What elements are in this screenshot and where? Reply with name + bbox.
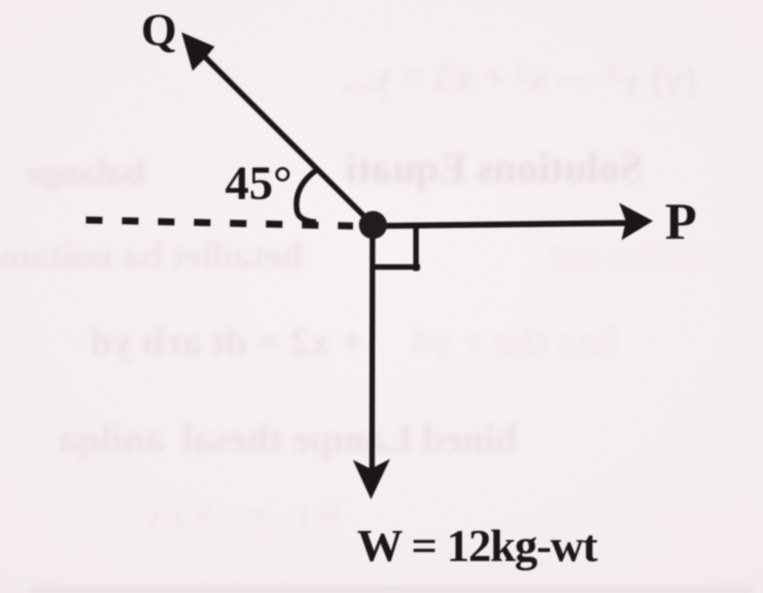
svg-text:0 t - y - S t v: 0 t - y - S t v [143, 495, 338, 537]
svg-text:45°: 45° [225, 157, 292, 210]
arrowhead of Q [183, 34, 213, 69]
svg-text:(y) y² — x² + x5 = y...: (y) y² — x² + x5 = y... [343, 56, 697, 101]
svg-text:+ x2 = dt arb yd: + x2 = dt arb yd [90, 319, 363, 364]
arrowhead of W [355, 461, 388, 497]
diagram ink [86, 34, 651, 497]
wire: force W shaft (down) [369, 225, 375, 472]
wire: force P shaft (to the right) [373, 223, 628, 226]
svg-text:Q: Q [141, 4, 177, 55]
svg-text:e - d: e - d [653, 495, 723, 537]
right-angle mark between P and W [374, 228, 420, 271]
45 degree angle arc [296, 169, 318, 222]
svg-text:balange: balange [25, 152, 145, 192]
node: junction dot [359, 211, 387, 239]
svg-text:W = 12kg-wt: W = 12kg-wt [357, 520, 599, 571]
svg-text:bea the + y4: bea the + y4 [412, 319, 618, 364]
wire: dashed horizontal reference line [86, 220, 353, 226]
svg-text:bined Lampe thesal: bined Lampe thesal [182, 416, 518, 461]
svg-text:P: P [665, 194, 697, 251]
arrowhead of P [621, 205, 651, 238]
svg-text:noitulos ent: noitulos ent [549, 235, 738, 277]
svg-text:anilqa: anilqa [58, 416, 165, 461]
wire: force Q shaft (up-left at 45 deg) [200, 52, 373, 225]
svg-text:Solutions Equati: Solutions Equati [345, 146, 643, 192]
svg-text:betaillet ba noitam: betaillet ba noitam [0, 235, 303, 277]
